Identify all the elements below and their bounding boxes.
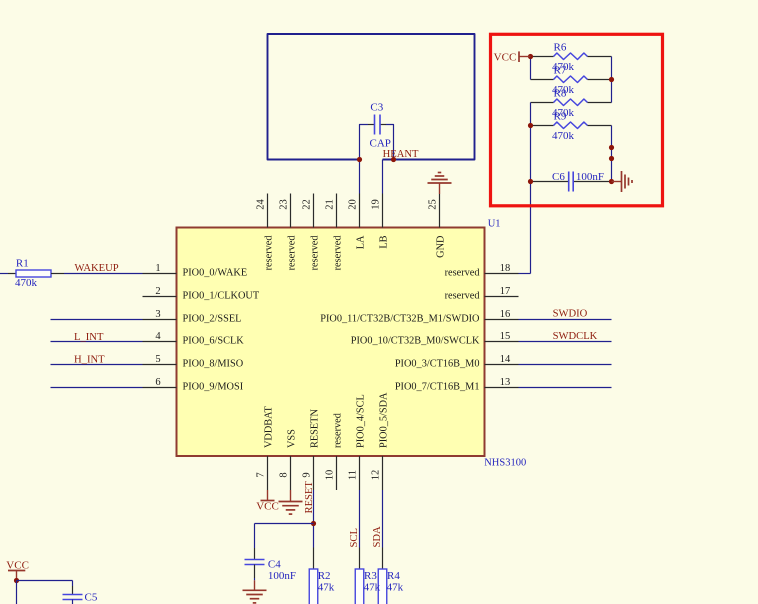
svg-text:PIO0_7/CT16B_M1: PIO0_7/CT16B_M1: [395, 382, 480, 393]
svg-text:L_INT: L_INT: [74, 332, 104, 343]
svg-text:PIO0_3/CT16B_M0: PIO0_3/CT16B_M0: [395, 359, 480, 370]
svg-text:C6: C6: [552, 171, 565, 183]
svg-text:C5: C5: [85, 591, 98, 603]
svg-text:24: 24: [256, 199, 267, 210]
svg-text:19: 19: [371, 199, 382, 210]
svg-text:PIO0_9/MOSI: PIO0_9/MOSI: [183, 382, 244, 393]
svg-text:4: 4: [155, 331, 161, 342]
svg-text:VDDBAT: VDDBAT: [263, 406, 274, 448]
svg-text:9: 9: [302, 472, 313, 477]
svg-text:reserved: reserved: [445, 268, 481, 279]
svg-text:47k: 47k: [318, 581, 335, 593]
svg-text:R9: R9: [554, 111, 567, 123]
svg-text:PIO0_8/MISO: PIO0_8/MISO: [183, 359, 244, 370]
svg-text:NHS3100: NHS3100: [484, 457, 526, 468]
svg-text:VSS: VSS: [286, 429, 297, 448]
svg-text:H_INT: H_INT: [74, 355, 105, 366]
svg-text:reserved: reserved: [332, 412, 343, 448]
svg-text:47k: 47k: [387, 581, 404, 593]
svg-text:16: 16: [500, 309, 511, 320]
svg-text:13: 13: [500, 377, 511, 388]
svg-text:PIO0_10/CT32B_M0/SWCLK: PIO0_10/CT32B_M0/SWCLK: [351, 336, 480, 347]
svg-text:R7: R7: [554, 65, 567, 77]
svg-text:R8: R8: [554, 88, 567, 100]
svg-text:5: 5: [155, 354, 160, 365]
svg-text:PIO0_0/WAKE: PIO0_0/WAKE: [183, 268, 248, 279]
svg-text:reserved: reserved: [332, 235, 343, 271]
svg-text:R2: R2: [318, 570, 331, 582]
svg-text:C4: C4: [268, 558, 281, 570]
svg-text:470k: 470k: [15, 277, 38, 289]
svg-text:PIO0_1/CLKOUT: PIO0_1/CLKOUT: [183, 291, 260, 302]
svg-text:470k: 470k: [552, 130, 575, 142]
svg-text:VCC: VCC: [6, 559, 29, 571]
svg-text:SDA: SDA: [372, 526, 383, 548]
svg-text:R6: R6: [554, 42, 567, 54]
svg-text:20: 20: [348, 199, 359, 210]
svg-text:PIO0_11/CT32B/CT32B_M1/SWDIO: PIO0_11/CT32B/CT32B_M1/SWDIO: [320, 314, 480, 325]
svg-text:C3: C3: [370, 102, 383, 114]
svg-text:LA: LA: [355, 235, 366, 249]
svg-text:12: 12: [371, 470, 382, 481]
svg-text:100nF: 100nF: [268, 570, 296, 582]
svg-text:CAP: CAP: [370, 137, 391, 149]
svg-text:reserved: reserved: [263, 235, 274, 271]
svg-text:LB: LB: [378, 235, 389, 248]
svg-text:6: 6: [155, 377, 160, 388]
svg-text:2: 2: [155, 286, 160, 297]
svg-text:100nF: 100nF: [576, 171, 604, 183]
svg-text:17: 17: [500, 286, 511, 297]
svg-text:reserved: reserved: [445, 291, 481, 302]
svg-text:PIO0_6/SCLK: PIO0_6/SCLK: [183, 336, 245, 347]
svg-text:WAKEUP: WAKEUP: [75, 263, 119, 274]
svg-text:7: 7: [256, 472, 267, 477]
svg-text:U1: U1: [488, 219, 501, 230]
svg-text:GND: GND: [435, 235, 446, 258]
svg-text:PIO0_2/SSEL: PIO0_2/SSEL: [183, 314, 242, 325]
svg-text:22: 22: [302, 199, 313, 210]
svg-text:47k: 47k: [364, 581, 381, 593]
svg-text:11: 11: [348, 470, 359, 480]
svg-text:SCL: SCL: [349, 528, 360, 547]
svg-text:reserved: reserved: [286, 235, 297, 271]
svg-text:R3: R3: [364, 570, 377, 582]
svg-text:3: 3: [155, 309, 160, 320]
svg-text:8: 8: [279, 472, 290, 477]
svg-text:VCC: VCC: [494, 51, 517, 63]
svg-text:18: 18: [500, 263, 511, 274]
svg-text:14: 14: [500, 354, 511, 365]
svg-text:R4: R4: [387, 570, 400, 582]
svg-text:21: 21: [325, 199, 336, 210]
svg-text:HEANT: HEANT: [383, 149, 419, 160]
svg-text:reserved: reserved: [309, 235, 320, 271]
svg-text:PIO0_5/SDA: PIO0_5/SDA: [378, 392, 389, 448]
svg-text:RESETN: RESETN: [309, 409, 320, 448]
svg-text:R1: R1: [16, 258, 29, 270]
svg-text:23: 23: [279, 199, 290, 210]
svg-text:10: 10: [325, 470, 336, 481]
svg-text:1: 1: [155, 263, 160, 274]
svg-text:RESET: RESET: [304, 481, 315, 514]
svg-text:PIO0_4/SCL: PIO0_4/SCL: [355, 394, 366, 448]
svg-text:15: 15: [500, 331, 511, 342]
svg-text:VCC: VCC: [256, 501, 279, 513]
svg-text:25: 25: [428, 199, 439, 210]
svg-text:SWDCLK: SWDCLK: [553, 331, 598, 342]
svg-text:SWDIO: SWDIO: [553, 308, 588, 319]
